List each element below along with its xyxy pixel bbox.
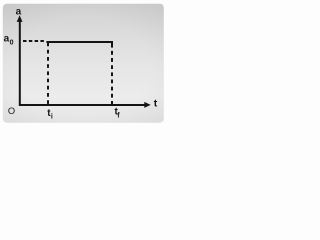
svg-text:0: 0 xyxy=(10,40,14,47)
pulse right corner solid stub xyxy=(111,43,113,48)
y-axis xyxy=(19,21,21,106)
dashed vertical at t_i xyxy=(47,43,49,105)
svg-text:t: t xyxy=(154,98,158,110)
panel background xyxy=(3,4,164,123)
x-axis arrowhead xyxy=(144,102,150,108)
x-axis xyxy=(19,104,145,106)
dashed vertical at t_f xyxy=(111,51,113,104)
svg-text:i: i xyxy=(51,114,53,121)
pulse top solid line xyxy=(46,41,113,43)
svg-text:a: a xyxy=(16,7,22,18)
y-axis arrowhead xyxy=(17,15,23,22)
svg-text:O: O xyxy=(8,106,15,116)
dashed horizontal a0 level xyxy=(23,40,45,42)
